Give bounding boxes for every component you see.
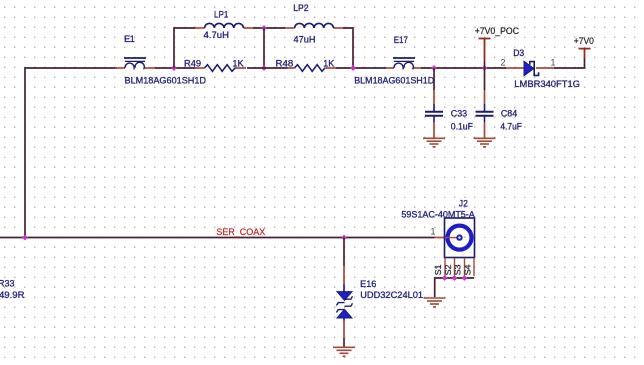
power +7V0	[574, 36, 594, 68]
pin S4 (J2 shield)	[462, 258, 474, 276]
svg-text:1K: 1K	[232, 57, 244, 68]
capacitor C33	[425, 68, 467, 138]
ground	[424, 298, 446, 307]
wire	[247, 67, 264, 69]
value label 49.9R (R33)	[0, 289, 25, 300]
svg-text:SER_COAX: SER_COAX	[216, 227, 265, 238]
ferrite bead E1	[115, 33, 155, 69]
svg-text:E16: E16	[360, 278, 376, 289]
svg-text:S2: S2	[443, 264, 453, 275]
wire	[336, 67, 386, 69]
svg-text:LP1: LP1	[214, 8, 228, 19]
svg-text:S1: S1	[433, 264, 443, 275]
junction	[442, 275, 448, 281]
svg-text:E1: E1	[124, 33, 135, 44]
value label 59S1AC-40MT5-A (J2)	[401, 208, 475, 219]
svg-text:1: 1	[551, 58, 556, 68]
value label 4.7uF (C84)	[500, 121, 522, 132]
junction	[462, 275, 468, 281]
svg-text:D3: D3	[513, 47, 524, 58]
svg-text:4.7uH: 4.7uH	[204, 29, 230, 40]
junction	[452, 275, 458, 281]
ground	[333, 347, 355, 356]
svg-text:BLM18AG601SH1D: BLM18AG601SH1D	[354, 75, 434, 86]
value label 1K (R48)	[323, 57, 335, 68]
svg-text:47uH: 47uH	[294, 33, 316, 44]
value label 47uH (LP2)	[294, 33, 316, 44]
TVS diode E16	[337, 238, 377, 347]
junction	[350, 65, 356, 71]
value label 0.1uF (C33)	[451, 121, 473, 132]
svg-text:49.9R: 49.9R	[0, 289, 25, 300]
svg-text:2: 2	[501, 58, 506, 68]
resistor R48	[264, 57, 336, 71]
svg-text:R48: R48	[276, 57, 294, 68]
svg-text:BLM18AG601SH1D: BLM18AG601SH1D	[125, 75, 207, 86]
junction	[171, 65, 177, 71]
junction	[482, 65, 488, 71]
svg-text:C33: C33	[451, 108, 467, 119]
svg-text:C84: C84	[501, 108, 517, 119]
svg-text:E17: E17	[394, 34, 408, 45]
wire SER_COAX rail	[0, 237, 435, 239]
svg-text:R33: R33	[0, 277, 15, 288]
svg-text:R49: R49	[184, 57, 201, 68]
svg-text:S3: S3	[453, 264, 463, 275]
wire	[155, 67, 196, 69]
svg-text:59S1AC-40MT5-A: 59S1AC-40MT5-A	[401, 208, 475, 219]
svg-text:1K: 1K	[323, 57, 335, 68]
pin S1 (J2 shield)	[433, 258, 445, 276]
net label SER_COAX	[216, 227, 265, 238]
junction	[431, 65, 437, 71]
junction	[261, 25, 267, 31]
svg-text:0.1uF: 0.1uF	[451, 121, 473, 132]
value label 1K (R49)	[232, 57, 244, 68]
wire	[343, 28, 353, 68]
value label 4.7uH (LP1)	[204, 29, 230, 40]
capacitor C84	[476, 68, 518, 138]
inductor LP1	[195, 8, 253, 28]
pin S2 (J2 shield)	[443, 258, 455, 276]
wire	[253, 27, 285, 29]
pin number 1 (D3 cathode)	[551, 58, 556, 68]
resistor R49	[184, 57, 246, 71]
value label BLM18AG601SH1D (E1)	[125, 75, 207, 86]
svg-text:+7V0: +7V0	[574, 36, 594, 47]
value label UDD32C24L01 (E16)	[360, 289, 423, 300]
connector J2	[435, 197, 475, 257]
value label LMBR340FT1G (D3)	[514, 78, 580, 89]
power +7V0_POC	[475, 26, 519, 68]
svg-text:LP2: LP2	[293, 2, 308, 13]
pin number 2 (D3 anode)	[501, 58, 506, 68]
svg-text:+7V0_POC: +7V0_POC	[475, 26, 519, 37]
wire	[263, 28, 265, 68]
svg-text:1: 1	[431, 227, 436, 237]
svg-text:UDD32C24L01: UDD32C24L01	[360, 289, 423, 300]
ground	[474, 138, 496, 147]
junction	[341, 235, 347, 241]
wire	[554, 67, 586, 69]
svg-text:LMBR340FT1G: LMBR340FT1G	[514, 78, 580, 89]
svg-text:J2: J2	[459, 197, 468, 208]
wire	[25, 68, 117, 238]
svg-text:S4: S4	[462, 264, 472, 275]
junction	[22, 235, 28, 241]
pin number 1 (J2 center)	[431, 227, 436, 237]
junction	[261, 65, 267, 71]
wire shield bus	[435, 278, 474, 297]
wire	[421, 67, 506, 69]
wire	[174, 28, 196, 68]
resistor R33 reference label	[0, 277, 15, 288]
pin S3 (J2 shield)	[453, 258, 465, 276]
svg-text:4.7uF: 4.7uF	[500, 121, 522, 132]
ferrite bead E17	[386, 34, 421, 70]
diode D3	[506, 47, 554, 76]
value label BLM18AG601SH1D (E17)	[354, 75, 434, 86]
inductor LP2	[285, 2, 343, 28]
ground	[423, 138, 445, 147]
